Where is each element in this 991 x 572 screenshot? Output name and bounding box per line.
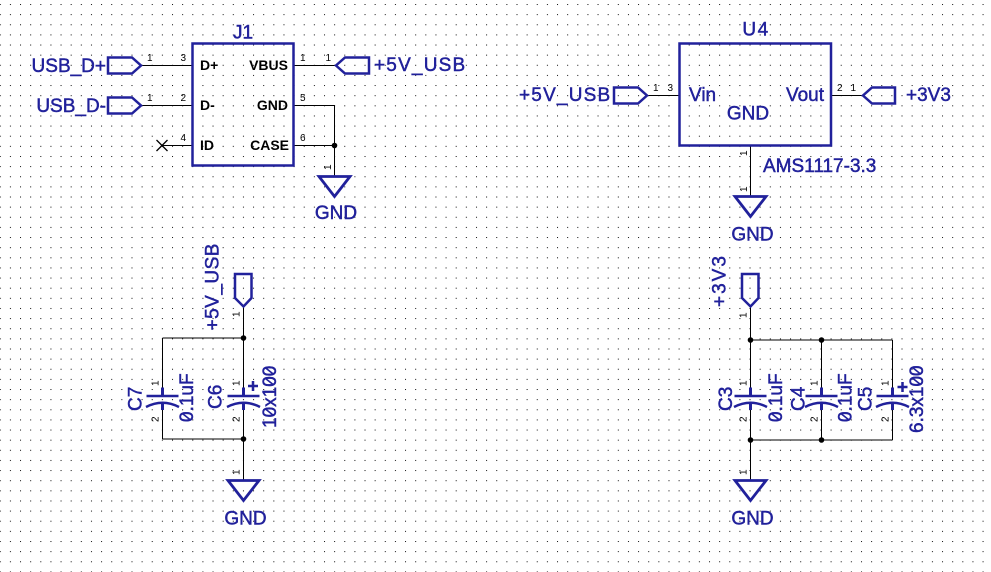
svg-text:AMS1117-3.3: AMS1117-3.3 [763, 156, 876, 177]
svg-text:+3V3: +3V3 [906, 85, 951, 106]
svg-text:1: 1 [323, 164, 334, 170]
svg-text:C7: C7 [126, 387, 147, 411]
svg-text:1: 1 [850, 83, 856, 94]
svg-text:1: 1 [653, 83, 659, 94]
svg-text:1: 1 [739, 469, 750, 475]
svg-text:6: 6 [300, 133, 306, 144]
svg-text:0.1uF: 0.1uF [177, 373, 198, 422]
svg-text:2: 2 [810, 416, 821, 422]
svg-text:0.1uF: 0.1uF [766, 373, 787, 422]
svg-text:C5: C5 [856, 387, 877, 411]
svg-text:2: 2 [739, 416, 750, 422]
svg-text:1: 1 [300, 53, 306, 64]
svg-text:C6: C6 [206, 385, 227, 409]
svg-text:GND: GND [731, 225, 773, 246]
svg-text:+5V_USB: +5V_USB [519, 85, 611, 106]
svg-text:10x100: 10x100 [260, 366, 281, 428]
svg-text:2: 2 [180, 93, 186, 104]
svg-text:1: 1 [232, 380, 243, 386]
svg-text:USB_D-: USB_D- [36, 96, 106, 117]
svg-text:6.3x100: 6.3x100 [907, 365, 928, 433]
svg-text:0.1uF: 0.1uF [836, 373, 857, 422]
svg-text:1: 1 [147, 53, 153, 64]
svg-text:Vout: Vout [786, 85, 825, 106]
svg-text:1: 1 [739, 312, 750, 318]
svg-text:3: 3 [180, 53, 186, 64]
svg-text:ID: ID [200, 137, 214, 153]
svg-text:C3: C3 [716, 387, 737, 411]
svg-text:1: 1 [810, 380, 821, 386]
svg-text:1: 1 [147, 93, 153, 104]
svg-text:5: 5 [300, 93, 306, 104]
svg-text:1: 1 [739, 380, 750, 386]
svg-text:GND: GND [224, 509, 266, 530]
svg-text:GND: GND [727, 104, 769, 125]
svg-text:4: 4 [180, 133, 186, 144]
svg-text:Vin: Vin [689, 85, 716, 106]
svg-text:1: 1 [881, 380, 892, 386]
svg-text:1: 1 [232, 469, 243, 475]
svg-text:GND: GND [731, 509, 773, 530]
svg-text:1: 1 [232, 311, 243, 317]
svg-text:+5V_USB: +5V_USB [374, 55, 466, 76]
svg-text:USB_D+: USB_D+ [32, 56, 106, 77]
svg-text:CASE: CASE [250, 137, 289, 153]
svg-text:1: 1 [151, 380, 162, 386]
svg-text:3: 3 [667, 83, 673, 94]
svg-text:VBUS: VBUS [249, 57, 288, 73]
svg-text:+5V_USB: +5V_USB [203, 243, 224, 330]
svg-text:D-: D- [200, 97, 215, 113]
svg-text:2: 2 [151, 416, 162, 422]
svg-text:J1: J1 [233, 23, 253, 44]
svg-text:GND: GND [315, 203, 357, 224]
svg-text:GND: GND [257, 97, 288, 113]
svg-text:2: 2 [881, 416, 892, 422]
svg-text:2: 2 [837, 83, 843, 94]
svg-text:+3V3: +3V3 [710, 254, 731, 307]
svg-text:1: 1 [325, 53, 331, 64]
svg-text:1: 1 [739, 150, 750, 156]
svg-text:C4: C4 [789, 386, 810, 411]
svg-text:D+: D+ [200, 57, 218, 73]
svg-text:U4: U4 [742, 20, 769, 41]
svg-text:1: 1 [739, 186, 750, 192]
svg-text:2: 2 [232, 416, 243, 422]
